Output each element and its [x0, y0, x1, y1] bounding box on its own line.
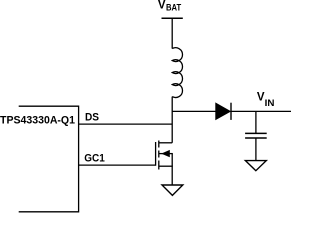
svg-text:GC1: GC1 [84, 153, 105, 165]
diode D1 [216, 103, 231, 120]
pin GC1 label [84, 153, 105, 165]
wire capacitor to ground [255, 138, 257, 160]
svg-text:DS: DS [85, 112, 99, 124]
wire inductor to MOSFET drain node [171, 97, 173, 143]
wire VBAT rail to inductor [171, 18, 173, 48]
power rail VBAT bar [162, 17, 183, 19]
wire GC1 pin to MOSFET gate [79, 164, 156, 166]
label VIN [257, 92, 275, 109]
wire VIN node to capacitor [255, 111, 257, 133]
svg-text:TPS43330A-Q1: TPS43330A-Q1 [0, 115, 75, 127]
ground (MOSFET source) [162, 185, 183, 195]
inductor L1 [172, 48, 182, 98]
svg-text:V: V [158, 0, 166, 12]
IC U1 TPS43330A-Q1 partial box (open left side) [19, 106, 79, 212]
ground (output capacitor) [245, 161, 266, 171]
transistor Q1 N-channel MOSFET [156, 141, 173, 170]
label TPS43330A-Q1 [0, 115, 75, 127]
label VBAT [158, 0, 181, 14]
wire node to diode anode [172, 110, 216, 112]
wire diode cathode to VIN (right edge) [231, 110, 291, 112]
pin DS label [85, 112, 99, 124]
svg-text:BAT: BAT [166, 3, 181, 14]
svg-text:IN: IN [265, 98, 275, 109]
wire DS pin to switch node [79, 123, 173, 125]
capacitor C1 [245, 133, 267, 138]
wire MOSFET source to ground [171, 166, 173, 185]
